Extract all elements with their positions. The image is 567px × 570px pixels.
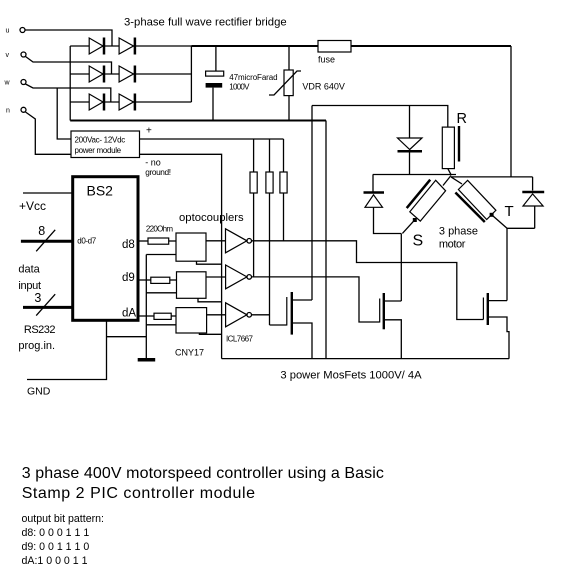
wire DC- drop to source bus — [325, 121, 327, 359]
wire row2 — [70, 73, 191, 75]
diode D1 — [89, 38, 104, 55]
wire OC2 out — [206, 276, 226, 278]
svg-text:ground!: ground! — [145, 167, 170, 177]
wire DC+ right drop — [510, 46, 512, 177]
resistor R2 220Ohm — [138, 277, 177, 283]
driver A2 — [226, 265, 252, 289]
svg-text:3 power MosFets 1000V/ 4A: 3 power MosFets 1000V/ 4A — [280, 370, 422, 382]
diode D6 — [119, 94, 135, 111]
resistor Rp2 — [266, 139, 273, 325]
wire n to power module — [26, 112, 72, 154]
svg-text:+Vcc: +Vcc — [19, 199, 46, 213]
wire OC3 out — [207, 314, 226, 316]
bus slash — [36, 230, 55, 252]
wire cathode 1 — [146, 254, 176, 256]
resistor Rp1 — [250, 139, 257, 277]
wire OC3 emitter — [199, 333, 221, 334]
svg-text:Stamp 2 PIC controller module: Stamp 2 PIC controller module — [22, 485, 256, 502]
resistor Rp3 — [280, 139, 287, 241]
svg-text:dA:1 0 0 0 1 1: dA:1 0 0 0 1 1 — [22, 555, 88, 567]
diode D2 — [119, 38, 135, 55]
wire OC2 emitter — [198, 298, 222, 302]
svg-text:motor: motor — [439, 238, 466, 250]
node data input — [18, 264, 41, 292]
wire cathode 2 — [146, 292, 176, 294]
wire row1 — [70, 45, 191, 47]
svg-text:d8: d8 — [122, 239, 135, 251]
wire w-tap to power module — [57, 88, 71, 139]
diode D9 — [522, 177, 544, 228]
ground symbol — [138, 358, 156, 362]
svg-text:T: T — [505, 203, 514, 220]
bridge left bus wire — [69, 46, 71, 121]
wire cathode 3 — [146, 324, 176, 326]
svg-text:8: 8 — [38, 224, 45, 238]
driver A3 — [226, 303, 252, 327]
wire star rail right — [451, 176, 533, 178]
wire RS232 bus — [23, 306, 73, 309]
svg-text:200Vac- 12Vdc: 200Vac- 12Vdc — [75, 136, 126, 145]
optocoupler OC1 — [176, 233, 206, 261]
svg-text:fuse: fuse — [318, 55, 335, 65]
diode D7 — [398, 106, 423, 175]
svg-text:prog.in.: prog.in. — [18, 340, 55, 352]
svg-text:d9: d9 — [122, 272, 135, 284]
svg-text:BS2: BS2 — [87, 183, 114, 199]
svg-text:power module: power module — [75, 146, 122, 155]
svg-text:3: 3 — [34, 291, 41, 305]
diode D8 — [364, 175, 402, 234]
svg-text:CNY17: CNY17 — [175, 348, 204, 358]
terminal v — [6, 52, 27, 59]
svg-text:v: v — [6, 52, 10, 59]
svg-text:- no: - no — [145, 158, 161, 168]
optocoupler OC2 — [177, 272, 207, 299]
svg-text:d0-d7: d0-d7 — [77, 237, 96, 246]
wire OC1 out — [206, 240, 226, 242]
svg-text:n: n — [6, 108, 10, 115]
node RS232 prog.in. — [18, 324, 55, 352]
winding S — [402, 176, 451, 250]
wire BS2 ground — [27, 320, 107, 379]
wire DC+ top bus — [191, 45, 511, 47]
wire u to bridge — [25, 30, 112, 46]
svg-text:S: S — [413, 233, 424, 250]
svg-text:VDR 640V: VDR 640V — [302, 82, 345, 92]
wire +Vcc — [23, 192, 73, 194]
bus slash — [36, 294, 55, 315]
svg-text:3 phase: 3 phase — [439, 225, 478, 237]
transistor Q3 — [483, 293, 509, 359]
wire d0-d7 bus — [21, 240, 73, 243]
svg-text:d9: 0 0 1 1 1 0: d9: 0 0 1 1 1 0 — [22, 541, 90, 553]
resistor R1 220Ohm — [138, 238, 176, 244]
capacitor C1 — [206, 46, 278, 121]
wire source bus — [222, 358, 509, 360]
fuse F1 — [318, 41, 351, 65]
wire Q3 drain riser — [506, 228, 508, 300]
svg-text:+: + — [146, 126, 152, 137]
wire v to bridge — [26, 57, 112, 75]
svg-text:optocouplers: optocouplers — [179, 212, 244, 224]
svg-text:u: u — [6, 28, 10, 35]
svg-text:d8: 0 0 0 1 1 1: d8: 0 0 0 1 1 1 — [22, 527, 90, 539]
terminal w — [4, 80, 27, 87]
IC U1 BS2 — [73, 177, 138, 321]
diode D5 — [89, 94, 104, 111]
wire driver1 out — [252, 241, 484, 320]
svg-text:RS232: RS232 — [24, 324, 56, 336]
power module PS1 — [71, 131, 140, 158]
svg-text:47microFarad: 47microFarad — [229, 73, 277, 82]
transistor Q1 — [287, 292, 312, 359]
resistor R3 220Ohm — [138, 313, 176, 319]
terminal u — [6, 28, 26, 35]
wire 12V return — [140, 154, 222, 358]
svg-text:1000V: 1000V — [229, 83, 250, 92]
bridge right bus wire — [190, 46, 192, 102]
svg-text:3-phase full wave rectifier br: 3-phase full wave rectifier bridge — [124, 17, 287, 29]
wire w to bridge — [26, 84, 111, 102]
driver A1 — [226, 229, 252, 253]
diode D3 — [89, 66, 104, 83]
terminal n — [6, 107, 26, 114]
diode D4 — [119, 66, 135, 83]
node - no ground — [145, 158, 170, 178]
svg-text:ICL7667: ICL7667 — [226, 335, 253, 344]
svg-text:data: data — [18, 264, 40, 276]
svg-text:R: R — [457, 111, 467, 127]
optocoupler OC3 — [176, 308, 207, 333]
winding T — [451, 177, 514, 228]
wire +12V — [140, 138, 284, 140]
wire T bottom — [507, 227, 535, 229]
svg-text:w: w — [4, 80, 11, 87]
svg-text:GND: GND — [27, 386, 51, 398]
label 3 phase motor — [439, 225, 478, 250]
wire BS2 gnd link — [107, 336, 147, 338]
wire Q2 drain riser — [400, 234, 402, 302]
varistor VDR 640V — [269, 46, 345, 121]
wire Q1 drain riser — [311, 106, 313, 301]
transistor Q2 — [380, 293, 402, 359]
winding R — [442, 111, 467, 175]
wire opto cathode rail — [145, 255, 147, 359]
svg-text:3 phase 400V motorspeed contro: 3 phase 400V motorspeed controller using… — [22, 465, 384, 482]
svg-text:dA: dA — [122, 308, 136, 320]
wire M1 gate link — [270, 324, 287, 326]
wire star rail left — [373, 174, 456, 176]
wire OC1 emitter — [197, 261, 222, 264]
wire row3 — [70, 101, 191, 103]
svg-text:output bit pattern:: output bit pattern: — [22, 513, 104, 525]
wire driver2 out — [252, 277, 380, 322]
wire phase R top — [312, 106, 448, 128]
wire DC- bottom bus — [70, 120, 326, 122]
wire driver3 out — [252, 314, 270, 316]
svg-text:220Ohm: 220Ohm — [146, 225, 174, 234]
